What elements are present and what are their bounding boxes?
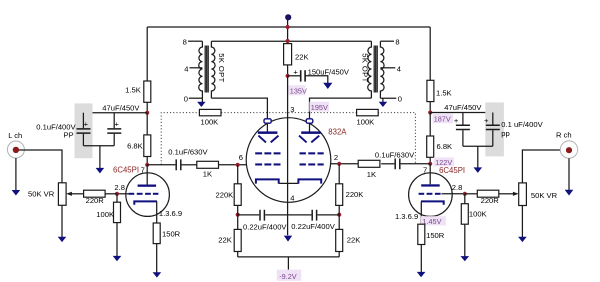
ground arrow (right PP caps) xyxy=(474,167,483,173)
svg-text:22K: 22K xyxy=(347,236,361,245)
ground arrow (left PP caps) xyxy=(96,168,105,174)
junction dot left plate node (pin 7) xyxy=(145,163,149,167)
svg-text:6: 6 xyxy=(239,153,243,162)
label 195V xyxy=(309,102,329,112)
resistor 1.5K (right) xyxy=(427,80,452,112)
svg-text:PP: PP xyxy=(64,131,74,140)
svg-text:195V: 195V xyxy=(311,103,328,112)
svg-text:1K: 1K xyxy=(203,170,212,179)
svg-text:pp: pp xyxy=(501,129,509,138)
T2 secondary winding (speaker side) xyxy=(380,41,384,98)
svg-text:135V: 135V xyxy=(290,87,307,96)
ground arrow (right pot) xyxy=(518,237,527,242)
svg-text:150R: 150R xyxy=(426,231,445,240)
node B+ supply dot xyxy=(285,14,291,20)
resistor 220K (right grid leak) xyxy=(336,164,364,206)
V2 plate lead xyxy=(429,164,431,185)
svg-text:5K OPT: 5K OPT xyxy=(361,53,370,82)
svg-text:3: 3 xyxy=(290,105,294,114)
svg-text:5K OPT: 5K OPT xyxy=(217,53,226,82)
wire left B+ node to filter caps xyxy=(83,112,147,114)
label 135V xyxy=(288,85,307,95)
node 135V junction dot xyxy=(286,74,290,78)
ground arrow (right 100K) xyxy=(461,256,470,261)
label -9.2V xyxy=(277,270,301,282)
resistor 220R (right) xyxy=(465,190,514,205)
svg-text:1.3.6.9: 1.3.6.9 xyxy=(395,212,418,221)
T2 tap 0 wire xyxy=(380,97,396,99)
U1 left anode bar xyxy=(258,131,278,134)
svg-text:47uF/450V: 47uF/450V xyxy=(444,103,482,112)
wire right caps common to ground xyxy=(463,146,493,168)
wire left plate cap to anode xyxy=(266,123,268,131)
wire right B+ node to filter caps xyxy=(430,112,493,114)
svg-text:50K VR: 50K VR xyxy=(531,191,558,200)
U1 right anode bar xyxy=(301,131,321,134)
resistor 220K (left grid leak) xyxy=(216,165,242,206)
svg-text:1.5K: 1.5K xyxy=(125,86,141,95)
wire B+ vertical stem xyxy=(287,20,289,44)
svg-text:+: + xyxy=(84,120,89,129)
wire L jack to volume pot xyxy=(19,150,62,184)
ground arrow (left cathode) xyxy=(153,272,162,277)
svg-text:-9.2V: -9.2V xyxy=(279,272,297,281)
svg-text:4: 4 xyxy=(397,64,401,73)
input jack R ch xyxy=(556,131,578,159)
svg-text:0: 0 xyxy=(184,94,188,103)
T1 tap 0 wire xyxy=(189,97,203,99)
resistor 1.5K (left) xyxy=(125,81,151,113)
U1 left beam plates xyxy=(258,136,278,143)
wire V1 grid lead xyxy=(117,193,129,195)
resistor 100K (left grid) xyxy=(96,194,120,257)
ground arrow (left pot) xyxy=(58,237,67,242)
tube U1 832A envelope xyxy=(246,118,331,203)
wire right plate cap to anode xyxy=(309,123,311,131)
svg-text:+: + xyxy=(484,116,489,125)
ground arrow (left 100K) xyxy=(113,256,122,261)
capacitor 0.1uF/630V (left) xyxy=(168,148,208,171)
capacitor 47uF/400V (right cap A) xyxy=(454,113,470,147)
svg-text:0.1 uF/400V: 0.1 uF/400V xyxy=(501,120,543,129)
label 1.45V xyxy=(421,216,446,226)
junction dot top rail xyxy=(286,25,290,29)
resistor 22K (right bias) xyxy=(336,205,361,257)
resistor 100K (left, on boundary) xyxy=(199,109,221,126)
tube V2 6C45PI (right) envelope xyxy=(409,173,453,217)
wire top rail xyxy=(147,26,430,28)
svg-text:0.22uF/400V: 0.22uF/400V xyxy=(291,222,335,231)
V1 grid dashes xyxy=(129,193,159,195)
svg-text:8: 8 xyxy=(183,38,187,47)
svg-text:150R: 150R xyxy=(162,229,181,238)
resistor 6.8K (left) xyxy=(127,113,151,165)
resistor 100K (right grid) xyxy=(461,194,486,257)
svg-text:1.5K: 1.5K xyxy=(436,89,452,98)
svg-text:+: + xyxy=(454,116,459,125)
wire right rail drop to 1.5K xyxy=(429,27,431,80)
svg-text:R ch: R ch xyxy=(556,131,572,140)
junction dot left grid node xyxy=(115,192,119,196)
transformer T2 5K OPT (right) xyxy=(361,38,402,107)
svg-text:187V: 187V xyxy=(434,115,451,124)
wire 135V node to capacitor xyxy=(288,75,300,77)
svg-text:100K: 100K xyxy=(96,210,114,219)
svg-text:6C45PI: 6C45PI xyxy=(113,165,139,174)
wire left plate node to coupling cap xyxy=(147,164,175,166)
junction dot right plate node (pin 7) xyxy=(428,162,432,166)
T2 primary winding (plate side) xyxy=(368,41,372,98)
resistor 22K (B+ dropper) xyxy=(284,44,309,65)
V1 cathode xyxy=(134,201,157,204)
wire left caps common to ground xyxy=(83,146,114,169)
junction dot mid rail xyxy=(286,39,290,43)
svg-text:22K: 22K xyxy=(218,236,232,245)
svg-text:6C45PI: 6C45PI xyxy=(439,166,465,175)
U1 screen grid dashes xyxy=(255,152,324,154)
svg-text:+: + xyxy=(293,67,298,76)
V2 grid dashes xyxy=(419,193,441,195)
V1 anode bar xyxy=(138,185,157,187)
gray module box (left PP cap) xyxy=(75,103,93,158)
ground arrow (right cathode) xyxy=(417,272,426,277)
input jack L ch xyxy=(7,131,24,158)
T1 tap 4 wire xyxy=(190,67,203,69)
gray module box (right PP cap) xyxy=(485,102,504,156)
wire V2 cathode lead xyxy=(420,201,422,224)
svg-text:100K: 100K xyxy=(469,210,487,219)
resistor 220R (left) xyxy=(84,190,117,205)
wire V1 cathode lead xyxy=(156,201,158,223)
svg-text:6.8K: 6.8K xyxy=(127,141,143,150)
svg-text:220R: 220R xyxy=(86,196,105,205)
resistor 1K (left grid stopper) xyxy=(182,161,219,178)
svg-text:6.8K: 6.8K xyxy=(437,142,453,151)
capacitor 150uF/450V xyxy=(293,67,350,81)
wire -9.2V bias rail xyxy=(238,257,340,270)
capacitor 0.22uF/400V (right) xyxy=(288,210,339,231)
junction dot left bias node xyxy=(236,213,240,217)
svg-text:4: 4 xyxy=(290,193,294,202)
ground arrow (T1 secondary) xyxy=(201,98,203,102)
svg-text:47uF/450V: 47uF/450V xyxy=(102,104,140,113)
label 187V xyxy=(433,114,454,124)
wire grid2 input (pin 2) xyxy=(331,163,359,165)
svg-text:220K: 220K xyxy=(346,190,364,199)
wire mid rail (transformer primaries) xyxy=(211,40,371,42)
capacitor 47uF/400V (left cap B) xyxy=(107,113,121,146)
svg-text:8: 8 xyxy=(395,38,399,47)
ground arrow (R jack) xyxy=(568,158,570,190)
potentiometer 50K VR (right) xyxy=(513,150,566,237)
wire V2 grid lead xyxy=(442,193,465,195)
V2 cathode xyxy=(421,201,444,204)
U1 right plate cap connector xyxy=(306,119,313,123)
svg-text:2.8: 2.8 xyxy=(114,183,125,192)
resistor 150R (right cathode) xyxy=(418,224,445,272)
wire left rail drop to 1.5K xyxy=(146,27,148,81)
U1 left cathode xyxy=(256,179,279,183)
capacitor 0.1uF/630V (right) xyxy=(375,150,430,169)
svg-text:2: 2 xyxy=(334,153,338,162)
capacitor 0.1uF/400V PP (left cap A) xyxy=(77,113,91,146)
T1 core xyxy=(205,46,208,93)
U1 right beam plates xyxy=(299,136,319,143)
svg-text:+: + xyxy=(114,120,119,129)
U1 control grid dashes xyxy=(255,163,324,165)
resistor 6.8K (right) xyxy=(427,113,452,164)
U1 left plate cap connector xyxy=(264,119,271,123)
wire center vertical (pin3 to pin4 to ground) xyxy=(287,76,289,235)
wire 22K to 135V node xyxy=(287,65,289,76)
resistor 100K (right, on boundary) xyxy=(357,109,379,126)
V2 anode bar xyxy=(421,184,440,186)
potentiometer 50K VR (left) xyxy=(28,183,83,237)
svg-text:L ch: L ch xyxy=(8,131,22,140)
svg-text:22K: 22K xyxy=(295,53,309,62)
capacitor 0.22uF/400V (left) xyxy=(238,210,289,232)
wire T1 primary bottom to left plate cap xyxy=(211,98,267,119)
junction dot pin 6 xyxy=(236,163,240,167)
svg-text:100K: 100K xyxy=(201,117,219,126)
U1 right cathode xyxy=(298,179,321,183)
svg-text:832A: 832A xyxy=(328,127,347,136)
svg-text:100K: 100K xyxy=(357,117,375,126)
junction dot right grid node xyxy=(463,192,467,196)
svg-text:0.1uF/630V: 0.1uF/630V xyxy=(375,150,415,159)
capacitor 0.1uF/400V pp (right cap B) xyxy=(484,113,500,147)
svg-text:0: 0 xyxy=(398,94,402,103)
tube V1 6C45PI (left) envelope xyxy=(126,173,170,217)
resistor 1K (right grid stopper) xyxy=(358,160,380,179)
ground arrow (center cathode line) xyxy=(284,236,292,242)
junction dot pin 2 xyxy=(337,162,341,166)
svg-text:4: 4 xyxy=(184,64,188,73)
T1 secondary winding (speaker side) xyxy=(199,41,203,98)
ground arrow (T2 secondary) xyxy=(382,98,384,102)
V1 plate lead xyxy=(146,165,148,185)
T2 tap 8 wire xyxy=(380,40,394,42)
wire grid1 input (pin 6) xyxy=(219,164,247,166)
ground arrow (L jack) xyxy=(15,158,17,190)
wire capacitor to ground xyxy=(305,76,328,83)
svg-text:220K: 220K xyxy=(216,190,234,199)
svg-text:0.1uF/630V: 0.1uF/630V xyxy=(168,148,208,157)
resistor 22K (left bias) xyxy=(218,205,241,257)
junction dot right B+ node xyxy=(428,110,432,114)
ground arrow (150uF) xyxy=(323,83,332,89)
wire cathode link xyxy=(279,182,299,184)
svg-text:0.22uF/400V: 0.22uF/400V xyxy=(243,222,287,231)
junction dot right bias node xyxy=(337,213,341,217)
wire T2 primary bottom to right plate cap xyxy=(310,98,372,119)
dotted enclosure boundary xyxy=(161,113,415,165)
label 122V xyxy=(434,157,454,167)
junction dot left B+ node xyxy=(145,111,149,115)
svg-text:1K: 1K xyxy=(367,170,376,179)
T1 tap 8 wire xyxy=(188,40,202,42)
T2 tap 4 wire xyxy=(380,67,395,69)
resistor 150R (left cathode) xyxy=(153,223,180,273)
svg-text:1.3.6.9: 1.3.6.9 xyxy=(159,209,182,218)
svg-text:50K VR: 50K VR xyxy=(28,189,55,198)
T2 core xyxy=(374,46,377,93)
T1 primary winding (plate side) xyxy=(211,41,215,98)
svg-text:220R: 220R xyxy=(481,196,500,205)
transformer T1 5K OPT (left) xyxy=(183,38,226,107)
svg-text:2.8: 2.8 xyxy=(452,183,463,192)
